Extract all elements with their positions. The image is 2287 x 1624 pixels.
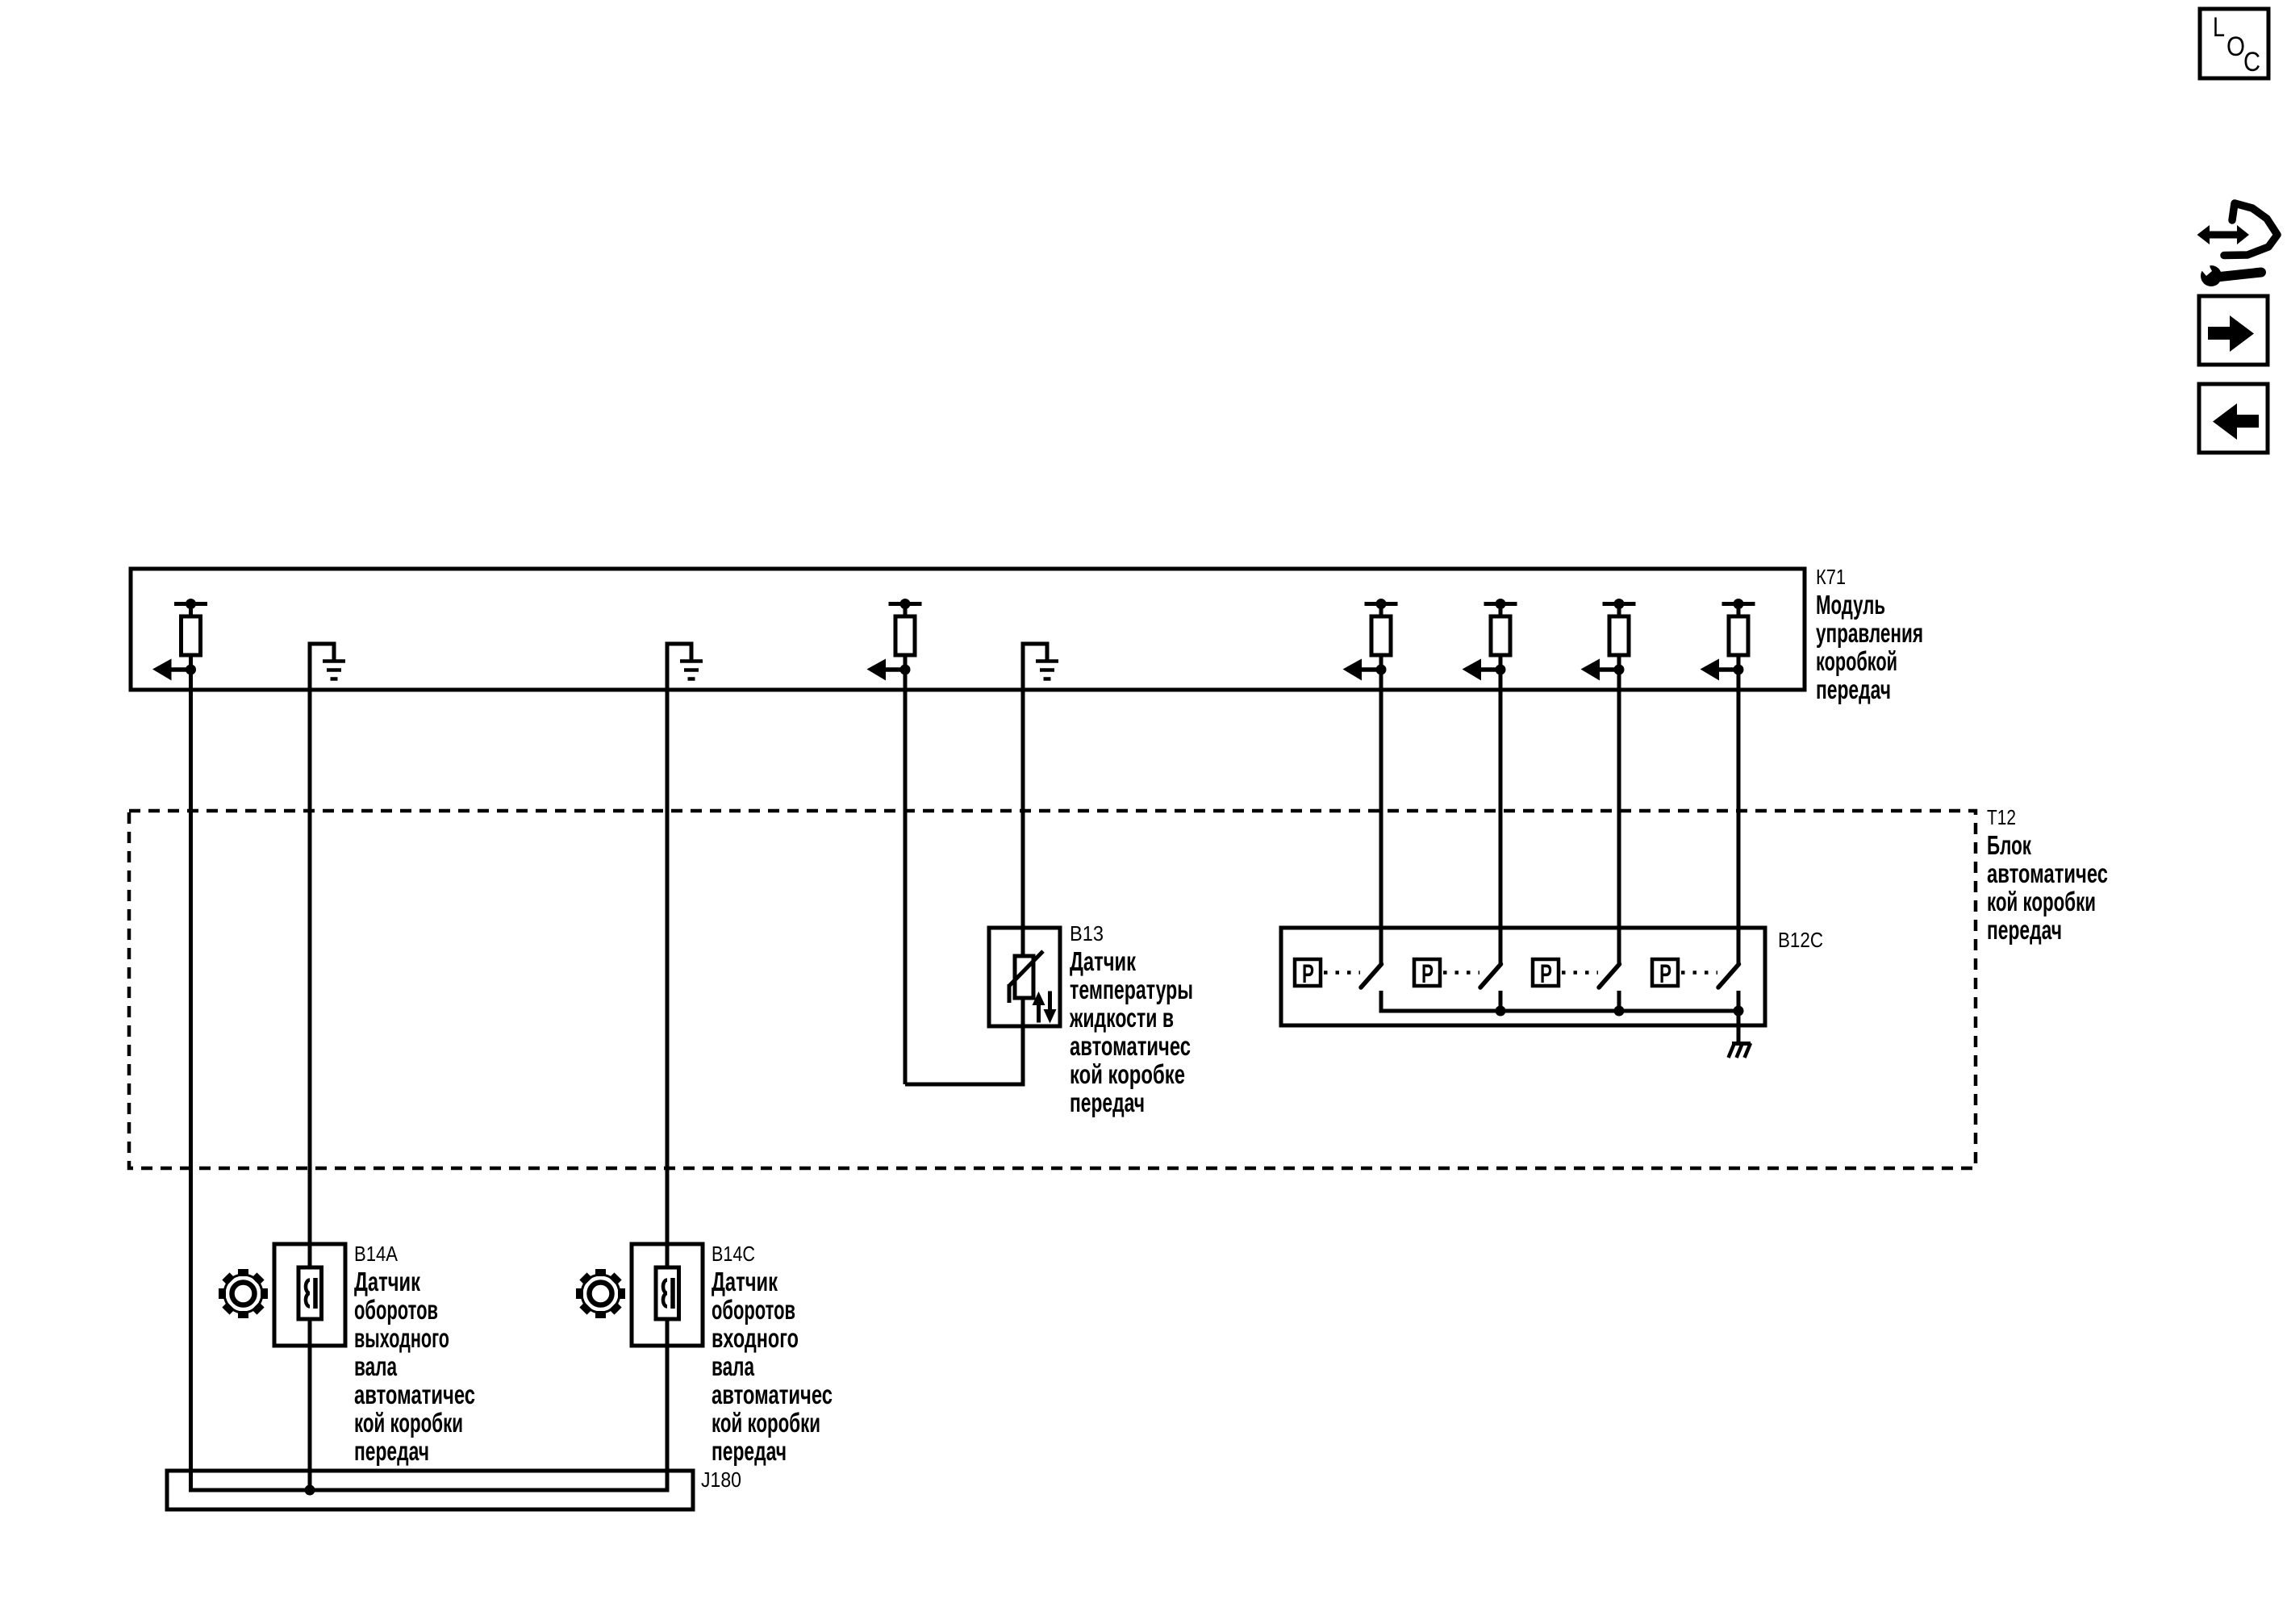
svg-text:P: P — [1421, 959, 1434, 988]
B13 thermistor element — [1015, 956, 1033, 998]
K71 pin 4 (fluid temperature signal): signal arrow pointing left — [900, 665, 911, 675]
B12C park switch 2: P indicator box — [1414, 959, 1440, 986]
svg-text:кой коробки: кой коробки — [712, 1408, 820, 1438]
back-arrow navigation box — [2199, 384, 2268, 453]
B12C park switch 2: fixed contact stub — [1499, 991, 1503, 1012]
wire: horizontal B13 return segment — [905, 1083, 1025, 1087]
K71 pin 9 (park switch 4 signal): signal arrow pointing left — [1734, 665, 1744, 675]
wire: K71 pin9 to B12C switch 4 — [1737, 674, 1741, 963]
back arrow — [2213, 403, 2259, 440]
B12C park switch 1: fixed contact stub — [1379, 991, 1383, 1012]
svg-text:кой коробки: кой коробки — [354, 1408, 463, 1438]
K71 pin 1 (output speed signal): internal pull-up resistor with T-bar — [174, 602, 207, 606]
K71 pin 9 (park switch 4 signal): internal pull-up resistor with T-bar — [1722, 602, 1755, 606]
B12C park switch 3: fixed contact stub — [1617, 991, 1621, 1012]
J180 internal bus — [189, 1488, 670, 1492]
svg-text:автоматичес: автоматичес — [1070, 1031, 1191, 1061]
svg-text:кой коробки: кой коробки — [1987, 887, 2096, 916]
svg-text:автоматичес: автоматичес — [712, 1380, 833, 1409]
B12C park switch 3: switch blade — [1599, 964, 1620, 987]
wire: B12C bus to chassis ground — [1737, 1011, 1741, 1043]
B12C common bus wire — [1379, 1009, 1739, 1013]
wire: K71 pin8 to B12C switch 3 — [1617, 674, 1621, 963]
wire: K71 pin6 to B12C switch 1 — [1379, 674, 1383, 963]
svg-text:P: P — [1302, 959, 1314, 988]
wire: K71 ground pin2 through B14A to J180 — [308, 644, 312, 1490]
forward arrow — [2208, 315, 2254, 352]
K71 pin 4 (fluid temperature signal): internal pull-up resistor with T-bar — [889, 602, 922, 606]
svg-text:Модуль: Модуль — [1816, 590, 1885, 620]
B12C park switch 2: dotted actuating link — [1443, 971, 1479, 975]
junction dot J180 bus / B14A wire — [305, 1485, 315, 1496]
B12C park switch 1: dotted actuating link — [1324, 971, 1360, 975]
wire: K71 pin1 to J180 bus (left) — [189, 674, 193, 1490]
K71 pin 6 (park switch 1 signal): signal arrow pointing left — [1376, 665, 1387, 675]
B12C park switch 2: switch blade — [1480, 964, 1501, 987]
svg-text:передач: передач — [1987, 915, 2062, 945]
svg-text:кой коробке: кой коробке — [1070, 1059, 1185, 1089]
svg-text:Блок: Блок — [1987, 830, 2031, 860]
joint connector J180 box — [167, 1471, 693, 1509]
svg-text:выходного: выходного — [354, 1323, 449, 1353]
svg-text:вала: вала — [354, 1351, 397, 1381]
svg-text:Т12: Т12 — [1987, 805, 2016, 829]
svg-text:автоматичес: автоматичес — [1987, 858, 2108, 888]
K71 pin 7 (park switch 2 signal): internal pull-up resistor with T-bar — [1484, 602, 1517, 606]
svg-text:температуры: температуры — [1070, 975, 1193, 1004]
svg-text:передач: передач — [1816, 674, 1891, 704]
module K71 box — [131, 569, 1805, 690]
В14А: gear icon — [238, 1269, 248, 1276]
B12C park switch 1: P indicator box — [1295, 959, 1321, 986]
svg-text:J180: J180 — [701, 1467, 741, 1492]
svg-text:В14А: В14А — [354, 1242, 399, 1266]
svg-text:входного: входного — [712, 1323, 799, 1353]
svg-text:Датчик: Датчик — [354, 1267, 420, 1296]
sensor B13 box — [989, 928, 1060, 1026]
wire: K71 ground pin3 through B14C to J180 — [666, 644, 670, 1490]
svg-text:жидкости в: жидкости в — [1069, 1003, 1174, 1033]
junction dot bus/switch3 — [1614, 1006, 1625, 1017]
svg-text:оборотов: оборотов — [712, 1295, 795, 1325]
svg-text:В14С: В14С — [712, 1242, 755, 1266]
K71 pin 3 ground: internal ground symbol — [666, 644, 670, 690]
T12 transmission assembly dashed box — [129, 811, 1976, 1168]
svg-text:передач: передач — [1070, 1088, 1145, 1117]
svg-text:L: L — [2213, 12, 2225, 43]
switch block B12C box — [1281, 928, 1765, 1025]
B12C park switch 3: P indicator box — [1533, 959, 1559, 986]
В14С inductive pickup element — [656, 1267, 679, 1319]
svg-text:Датчик: Датчик — [1070, 946, 1136, 976]
K71 pin 5 ground: internal ground symbol — [1021, 644, 1025, 690]
svg-text:В13: В13 — [1070, 921, 1104, 946]
B12C park switch 3: dotted actuating link — [1562, 971, 1598, 975]
K71 pin 7 (park switch 2 signal): signal arrow pointing left — [1496, 665, 1506, 675]
В14А inductive pickup element — [298, 1267, 322, 1319]
junction dot bus/switch2 — [1496, 1006, 1506, 1017]
svg-text:автоматичес: автоматичес — [354, 1380, 475, 1409]
K71 pin 8 (park switch 3 signal): signal arrow pointing left — [1614, 665, 1625, 675]
sensor В14С box — [632, 1244, 703, 1346]
svg-text:Датчик: Датчик — [712, 1267, 778, 1296]
B13 bidirectional arrows — [1033, 992, 1045, 1023]
svg-text:К71: К71 — [1816, 565, 1846, 589]
forward-arrow navigation box — [2199, 296, 2268, 365]
junction dot bus/switch4 — [1734, 1006, 1744, 1017]
K71 pin 2 ground: internal ground symbol — [308, 644, 312, 690]
svg-text:передач: передач — [712, 1436, 787, 1466]
svg-text:передач: передач — [354, 1436, 429, 1466]
svg-text:C: C — [2243, 47, 2260, 77]
K71 pin 8 (park switch 3 signal): internal pull-up resistor with T-bar — [1603, 602, 1636, 606]
wire: K71 ground pin5 through B13 sensor — [1021, 644, 1025, 1087]
svg-text:коробкой: коробкой — [1816, 646, 1897, 676]
B12C park switch 1: switch blade — [1361, 964, 1382, 987]
K71 pin 1 (output speed signal): signal arrow pointing left — [186, 665, 196, 675]
wire: K71 pin7 to B12C switch 2 — [1499, 674, 1503, 963]
B12C park switch 4: switch blade — [1718, 964, 1739, 987]
svg-text:вала: вала — [712, 1351, 754, 1381]
svg-text:O: O — [2226, 31, 2245, 62]
B12C park switch 4: dotted actuating link — [1681, 971, 1717, 975]
svg-text:В12С: В12С — [1778, 928, 1823, 952]
diagnostic icon: double-headed arrow — [2197, 225, 2250, 244]
svg-text:P: P — [1659, 959, 1671, 988]
svg-text:управления: управления — [1816, 618, 1923, 648]
diagnostic icon: harness hook curve — [2224, 203, 2277, 256]
chassis ground below B12C — [1732, 1042, 1751, 1046]
diagnostic icon: wrench — [2201, 265, 2222, 286]
svg-text:оборотов: оборотов — [354, 1295, 438, 1325]
wire: K71 pin4 down to B13 return — [904, 674, 908, 1084]
LOC logo box — [2200, 9, 2268, 78]
svg-text:P: P — [1540, 959, 1552, 988]
В14С: gear icon — [595, 1269, 606, 1276]
K71 pin 6 (park switch 1 signal): internal pull-up resistor with T-bar — [1365, 602, 1398, 606]
B12C park switch 4: P indicator box — [1652, 959, 1678, 986]
B12C park switch 4: fixed contact stub — [1737, 991, 1741, 1012]
sensor В14А box — [274, 1244, 345, 1346]
